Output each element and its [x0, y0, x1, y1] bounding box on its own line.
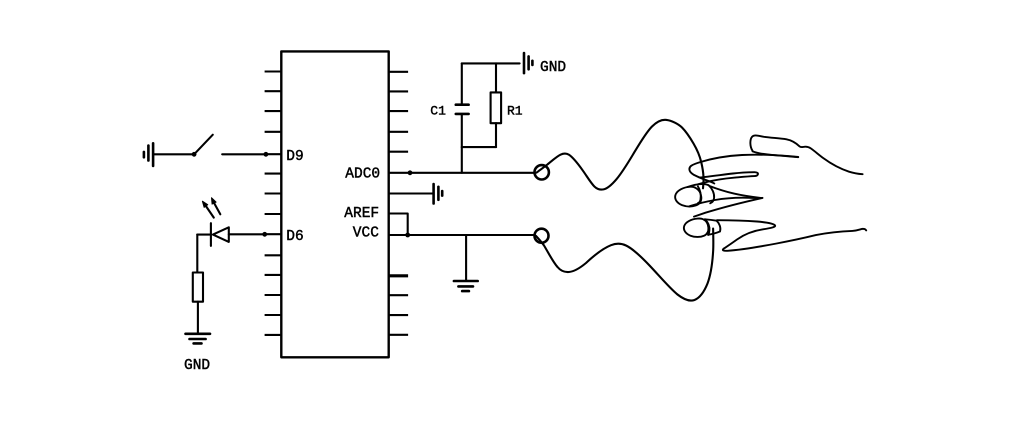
svg-text:GND: GND: [184, 358, 210, 374]
svg-text:C1: C1: [430, 104, 446, 119]
svg-text:GND: GND: [540, 60, 566, 76]
svg-text:VCC: VCC: [353, 225, 379, 241]
svg-text:D9: D9: [286, 149, 303, 165]
svg-text:D6: D6: [286, 229, 303, 245]
svg-text:R1: R1: [507, 104, 523, 119]
svg-text:ADC0: ADC0: [345, 166, 380, 182]
svg-text:AREF: AREF: [344, 206, 379, 222]
